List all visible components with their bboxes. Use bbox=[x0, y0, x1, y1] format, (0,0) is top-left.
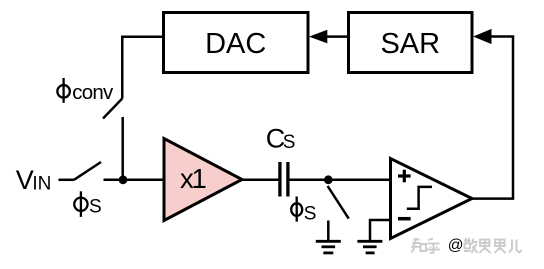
arrowhead into DAC bbox=[309, 30, 327, 44]
comparator minus pin label bbox=[398, 217, 411, 221]
wire comparator negative input to ground bbox=[370, 220, 391, 240]
wire switch to ground bbox=[327, 221, 330, 241]
wire switch to buffer input through node A bbox=[104, 179, 166, 182]
svg-text:IN: IN bbox=[32, 173, 51, 194]
wire buffer output to CS bbox=[242, 179, 279, 182]
char hu bbox=[427, 239, 440, 254]
comparator plus pin label bbox=[398, 170, 411, 183]
wire CS to comparator positive input through node B bbox=[290, 179, 391, 182]
char zhi bbox=[411, 238, 426, 253]
svg-text:S: S bbox=[283, 132, 296, 153]
switch phi_S sample blade bbox=[328, 186, 349, 219]
char jing bbox=[464, 238, 478, 253]
label phi_conv bbox=[57, 78, 114, 104]
label phi_S input bbox=[74, 191, 101, 217]
char guo 1 bbox=[480, 239, 491, 254]
svg-text:conv: conv bbox=[72, 81, 114, 104]
wire DAC to switch phi_conv bbox=[122, 37, 163, 99]
comparator hysteresis symbol bbox=[407, 187, 432, 209]
capacitor CS bbox=[280, 162, 288, 197]
block SAR bbox=[349, 13, 473, 73]
switch phi_S input blade bbox=[74, 162, 101, 180]
svg-text:SAR: SAR bbox=[380, 28, 440, 60]
source VIN label bbox=[16, 165, 52, 195]
wire feedback comparator output to SAR bbox=[472, 37, 513, 199]
block DAC bbox=[164, 13, 309, 73]
svg-text:S: S bbox=[304, 204, 317, 225]
char er bbox=[509, 240, 522, 253]
comparator U2 bbox=[391, 159, 473, 239]
char guo 2 bbox=[495, 239, 506, 254]
watermark zhihu bbox=[411, 237, 522, 254]
svg-text:V: V bbox=[16, 165, 34, 195]
label CS bbox=[266, 123, 296, 153]
node B junction dot bbox=[324, 175, 333, 184]
wire switch phi_conv to node A bbox=[121, 117, 124, 180]
node A junction dot bbox=[119, 175, 128, 184]
svg-text:@: @ bbox=[448, 237, 464, 254]
svg-text:S: S bbox=[89, 196, 102, 217]
arrowhead into SAR bbox=[473, 29, 491, 44]
wire VIN lead bbox=[59, 179, 75, 182]
ground under switch bbox=[316, 241, 341, 253]
wire SAR to DAC bbox=[327, 35, 349, 38]
label phi_S sample bbox=[291, 197, 316, 225]
svg-text:x1: x1 bbox=[180, 163, 206, 194]
switch phi_conv blade bbox=[103, 99, 122, 119]
svg-text:DAC: DAC bbox=[205, 28, 266, 60]
ground at comparator negative input bbox=[357, 241, 382, 253]
buffer U1 x1 bbox=[164, 139, 242, 221]
